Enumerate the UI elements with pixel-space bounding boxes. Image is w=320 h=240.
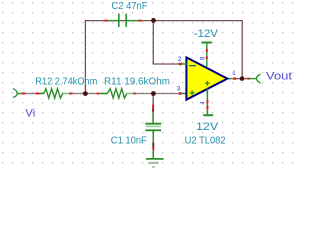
resistor R11 [97,89,187,98]
label C2 value [112,1,148,12]
pin 2 number [178,57,183,63]
wire: feedback top rail from C2 node to right corner [85,20,242,22]
wire: horizontal into op-amp pin 2 [153,63,181,65]
wire: node B down to C1 [152,94,154,112]
resistor R12 [22,89,73,98]
wire: left vertical from top rail down to node A [84,20,86,94]
ground [146,150,164,167]
capacitor C2 [105,14,142,27]
wire: right vertical from top rail down to output node [241,20,243,79]
pin 8 number [201,56,207,60]
node B junction [151,91,156,96]
svg-text:U2 TL082: U2 TL082 [185,135,226,146]
pin 2 lead [179,63,187,66]
label Vi [25,107,35,119]
label U2 TL082 [185,135,226,146]
wire: input row R12 to R11 through node A [71,93,99,95]
pin 1 number [232,71,236,77]
svg-text:12V: 12V [196,121,219,133]
wire: input row Vi terminal to R12 [25,93,43,95]
svg-text:R12 2.74kOhm: R12 2.74kOhm [35,77,97,88]
terminal Vi [13,89,25,97]
node: C2 output junction on top rail [151,18,156,23]
terminal Vout [256,75,260,83]
svg-text:Vi: Vi [25,107,35,119]
node: output junction [240,76,245,81]
op-amp U2 triangle [186,57,227,99]
svg-text:Vout: Vout [266,71,292,83]
svg-text:C2 47nF: C2 47nF [112,1,148,12]
svg-text:R11 19.6kOhm: R11 19.6kOhm [104,77,170,88]
svg-text:C1 10nF: C1 10nF [111,135,147,146]
wire: op-amp output to Vout terminal [228,78,257,80]
pin 8 power lead (top) [206,43,208,68]
power port 12V (bottom bar) [203,114,213,116]
label R11 value [104,77,170,88]
wire: input row R11 to op-amp pin 3 through node B [135,93,181,95]
label 12V [196,121,219,133]
label R12 value [35,77,97,88]
capacitor C1 [145,104,161,150]
op-amp V+ marker (plus) [205,81,210,86]
op-amp non-inverting input marker (plus) [190,90,195,95]
pin 4 number [201,101,207,105]
op-amp inverting input marker (minus) [189,65,196,67]
wire: vertical from C2 output junction down toward pin 2 [152,21,154,64]
power port -12V (top bar) [201,42,212,44]
label Vout [266,71,292,83]
label -12V [194,28,219,40]
pin 4 power lead (bottom) [206,89,208,115]
pin 1 output lead [233,77,250,79]
svg-text:-12V: -12V [194,28,219,40]
node A junction [83,91,88,96]
pin 3 number [177,87,182,93]
label C1 value [111,135,147,146]
